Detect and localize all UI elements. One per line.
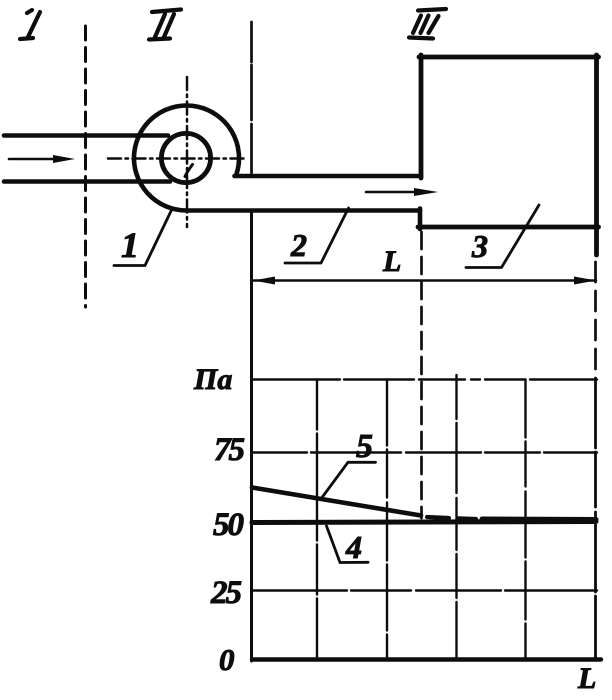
outlet flow arrow: [366, 188, 438, 196]
curve 5 (total pressure, sloping): [252, 488, 421, 516]
chamber left wall: [419, 55, 424, 178]
curve 5 merged portion: [482, 517, 596, 523]
dashed extension of chamber right wall (section III, upper): [594, 262, 597, 378]
svg-text:50: 50: [213, 507, 244, 543]
inlet duct top wall: [4, 133, 168, 138]
gridline 25: [252, 589, 597, 591]
dimension line L: [253, 277, 596, 285]
chamber right wall: [594, 55, 599, 255]
svg-text:5: 5: [356, 428, 373, 465]
label III: [409, 9, 446, 39]
label I: [20, 10, 40, 39]
outlet duct top wall: [235, 174, 422, 179]
right border of grid (section III, lower): [594, 378, 597, 660]
fan volute (outer scroll): [134, 106, 239, 211]
inlet duct bottom wall: [4, 179, 170, 184]
vertical gridline 3: [455, 375, 457, 660]
leader for label 5: [322, 462, 376, 497]
section line I (dashed vertical): [84, 26, 87, 307]
svg-text:3: 3: [471, 228, 488, 264]
label II: [149, 10, 181, 40]
gridline 75: [252, 451, 597, 453]
svg-text:0: 0: [219, 642, 235, 677]
fan rotation tick: [185, 165, 193, 177]
chamber bottom wall: [418, 225, 599, 230]
svg-text:1: 1: [121, 225, 139, 265]
vertical gridline 1: [316, 380, 318, 660]
svg-text:L: L: [382, 245, 401, 278]
fan inner circle: [161, 133, 210, 182]
curve 5 dashed portion: [427, 517, 476, 519]
chamber inlet step: [418, 209, 423, 230]
fan vertical centerline (dash-dot): [186, 77, 189, 227]
svg-text:2: 2: [290, 227, 307, 263]
leader for label 1: [114, 210, 172, 266]
svg-text:25: 25: [210, 575, 242, 611]
outlet duct bottom wall: [187, 208, 421, 213]
leader for label 2: [285, 208, 349, 263]
svg-text:75: 75: [214, 432, 245, 468]
fan horizontal centerline (dash-dot): [108, 157, 248, 160]
curve 4 (static pressure): [252, 522, 596, 523]
leader for label 4: [327, 526, 369, 563]
section line II-II (upper segment): [250, 22, 253, 173]
vertical gridline 4: [524, 380, 526, 660]
inlet flow arrow: [9, 155, 75, 163]
vertical gridline 2: [386, 380, 388, 660]
dashed extension of chamber left wall: [420, 232, 423, 518]
section line II-II / pressure axis (lower segment): [250, 211, 253, 661]
gridline 100 Pa: [252, 378, 597, 380]
chamber top wall: [419, 55, 599, 60]
svg-text:4: 4: [345, 529, 362, 565]
svg-text:Па: Па: [193, 363, 232, 396]
svg-text:L: L: [577, 662, 596, 695]
leader for label 3: [466, 205, 539, 268]
x axis (0 line): [252, 657, 601, 661]
